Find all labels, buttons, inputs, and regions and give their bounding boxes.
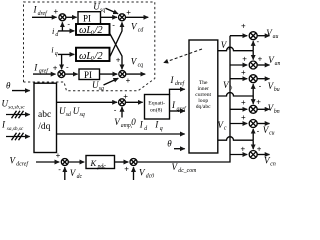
summing junction sum3 (q-axis error) [58, 71, 65, 78]
svg-text:on(8): on(8) [150, 106, 162, 113]
wire Equation8 to Iqref [170, 110, 185, 112]
node Va [221, 40, 230, 52]
svg-text:+: + [241, 22, 246, 31]
wire theta to abcdq [12, 90, 30, 92]
summing junction sum7 (dc offset) [130, 159, 137, 166]
svg-text:-: - [114, 106, 117, 115]
wire theta to inner loop [174, 148, 185, 150]
wire Va tie up into sumA1 [252, 41, 254, 51]
node Usabc [2, 98, 26, 110]
wire Idref to sum1 [32, 16, 57, 18]
svg-text:cq: cq [138, 63, 144, 69]
svg-text:d: d [144, 126, 147, 132]
svg-text:abc: abc [38, 110, 51, 120]
wire riser branch to sumB1 [230, 78, 247, 80]
summing junction sumB2 (Vbn) [249, 105, 257, 113]
wire riser branch to sumA1 [230, 35, 247, 37]
summing junction sumB1 (Vbu) [249, 75, 257, 83]
wire Kpdc to sum7 [115, 161, 129, 163]
node Id [139, 120, 148, 132]
svg-text:θ: θ [6, 80, 11, 90]
svg-text:+: + [53, 63, 58, 72]
node id [52, 26, 58, 38]
svg-text:-: - [257, 37, 260, 46]
block wL2 (omega L0/2 q-axis) [76, 48, 110, 63]
summing junction sum4 (Vcq) [119, 71, 126, 78]
svg-text:Equati-: Equati- [148, 100, 165, 106]
svg-text:a: a [227, 46, 230, 52]
svg-text:+: + [257, 144, 262, 153]
svg-text:PI: PI [84, 70, 92, 80]
block abc/dq transform [34, 83, 57, 152]
svg-text:+: + [126, 76, 131, 85]
wire riser branch to sumC2 [230, 154, 247, 156]
svg-text:+: + [241, 144, 246, 153]
wire sum6 to Kpdc [68, 161, 84, 163]
svg-text:+: + [258, 54, 263, 63]
svg-text:-: - [67, 20, 70, 29]
node Idref [33, 5, 49, 17]
svg-text:/dq: /dq [38, 122, 50, 132]
svg-text:sq: sq [99, 86, 104, 92]
node Usq bottom [92, 80, 104, 92]
svg-text:+: + [242, 54, 247, 63]
node Vdc0 [139, 167, 154, 179]
dashed box (decoupled current controller) [24, 2, 155, 91]
block inner current loop [189, 40, 218, 153]
svg-text:0: 0 [131, 117, 136, 127]
wire Equation8 to Idref (up and right) [170, 89, 185, 94]
svg-text:qref: qref [177, 105, 188, 112]
svg-text:dref: dref [38, 10, 49, 17]
wire Vc from inner loop (with hop) [218, 137, 253, 140]
wire sumA1 output [257, 35, 269, 37]
svg-text:dc: dc [77, 174, 83, 180]
wire sum2 output Vcd [126, 16, 149, 18]
dashed arrow inner loop to controller [164, 49, 202, 63]
wire Iqref to sum3 [33, 73, 56, 75]
wire Isabc bus to abcdq [6, 133, 30, 141]
svg-text:dref: dref [175, 80, 186, 87]
node iq [51, 45, 57, 58]
svg-text:+: + [54, 7, 59, 16]
block PI1 [78, 12, 101, 24]
svg-text:pdc: pdc [97, 164, 107, 170]
summing junction sumC1 (Vcu) [249, 120, 257, 128]
svg-text:/2: /2 [94, 25, 104, 36]
svg-text:-: - [257, 127, 260, 136]
svg-text:+: + [256, 97, 261, 106]
node Vcq [131, 57, 143, 69]
node Vcn [264, 155, 276, 167]
node Idref mid [170, 75, 186, 87]
svg-text:+: + [124, 165, 129, 174]
svg-text:au: au [273, 34, 279, 40]
node Usq top [93, 2, 105, 14]
wire id up into sum1 [61, 22, 63, 31]
wire Vb tie up into sumB1 [252, 84, 254, 96]
svg-text:q: q [55, 51, 58, 57]
svg-text:bn: bn [274, 109, 280, 115]
svg-text:0: 0 [91, 56, 94, 62]
svg-text:sd: sd [66, 112, 71, 118]
wire sumC2 output [257, 154, 269, 156]
svg-text:θ: θ [167, 138, 172, 148]
wire Vdccom to riser [137, 36, 230, 162]
svg-text:0: 0 [91, 31, 94, 37]
svg-text:PI: PI [83, 13, 91, 23]
block Equation8 [145, 95, 170, 120]
svg-text:sa,sb,sc: sa,sb,sc [7, 126, 24, 132]
wire iq to wL2 [58, 53, 74, 55]
node Vau [266, 28, 278, 40]
summing junction sum6 (dc voltage error) [61, 159, 68, 166]
node Iqref [33, 62, 49, 74]
summing junction sumC2 (Vcn) [249, 151, 257, 159]
block Kpdc [86, 156, 115, 171]
svg-text:+: + [56, 151, 61, 160]
wire sumB2 output [257, 108, 269, 110]
svg-text:dc_com: dc_com [178, 168, 196, 174]
wire iq down into sum3 [61, 54, 63, 69]
node Vdc [70, 168, 83, 180]
svg-text:+: + [126, 8, 131, 17]
svg-text:q: q [160, 126, 163, 132]
svg-text:b: b [229, 86, 232, 92]
svg-text:an: an [275, 61, 280, 67]
wire Vb tie down into sumB2 [252, 96, 254, 104]
node Vc [218, 120, 227, 132]
wire PI1 to sum2 [101, 16, 118, 18]
svg-text:-: - [66, 63, 69, 72]
svg-text:cu: cu [269, 131, 275, 137]
node Vbu [268, 81, 280, 93]
bottom row: node Vdcref [10, 155, 30, 167]
wire sum1 to PI1 [66, 16, 77, 18]
svg-text:-: - [112, 20, 115, 29]
wire Va from inner loop (with hop) [218, 47, 253, 51]
summing junction sumA1 (Vau) [249, 32, 257, 40]
svg-text:sa,sb,sc: sa,sb,sc [8, 105, 25, 111]
wire sumA2 output [257, 64, 269, 66]
svg-text:bu: bu [274, 87, 280, 93]
wire Usabc bus to abcdq [6, 111, 30, 119]
node Usd Usq [59, 106, 85, 118]
node Vamp0 [114, 117, 136, 129]
svg-text:-: - [58, 165, 61, 174]
wire Vdcref to sum6 [36, 161, 59, 163]
cross coupling wire wL2 to sum2 (X diagonal B) [110, 22, 123, 57]
wire riser branch to sumB2 [230, 108, 247, 110]
wire sum4 output Vcq [126, 73, 145, 75]
svg-text:dc0: dc0 [146, 174, 154, 180]
block PI2 [79, 69, 100, 80]
svg-text:dq/abc: dq/abc [196, 104, 211, 110]
summing junction sum1 (d-axis error) [59, 14, 66, 21]
svg-text:qref: qref [39, 67, 50, 74]
block wL1 (omega L0/2 d-axis) [76, 24, 110, 37]
svg-text:-: - [259, 81, 262, 90]
wire sumB1 output [257, 78, 269, 80]
wire Va tie down into sumA2 [252, 51, 254, 60]
svg-text:dcref: dcref [16, 161, 29, 168]
node Vbn [268, 103, 280, 115]
wire Id Iq to inner loop [57, 133, 185, 135]
summing junction sumA2 (Van) [249, 61, 257, 69]
wire sum3 to PI2 [65, 73, 78, 75]
svg-text:c: c [224, 126, 227, 132]
node Van [268, 55, 280, 67]
wire Vdc0 up into sum7 [133, 167, 135, 180]
node Vcd [131, 22, 143, 34]
node Iq [154, 120, 163, 132]
svg-text:sq: sq [100, 8, 105, 14]
cross coupling wire wL1 to sum4 (X diagonal A) [110, 33, 123, 69]
svg-text:+: + [241, 113, 246, 122]
wire Usq bottom to sum4 (diagonal) [104, 78, 119, 85]
node Iqref mid [171, 100, 187, 112]
svg-text:+: + [116, 55, 121, 64]
svg-text:cn: cn [270, 161, 276, 167]
wire sumC1 output [257, 123, 269, 125]
wire PI2 to sum4 [100, 73, 118, 75]
summing junction sum2 (Vcd) [119, 14, 126, 21]
svg-text:sq: sq [80, 112, 85, 118]
node Isabc [1, 120, 24, 132]
svg-text:+: + [241, 68, 246, 77]
wire Vamp0 up into sum5 [121, 107, 123, 118]
wire riser branch to sumC1 [230, 123, 247, 125]
wire riser branch to sumA2 [230, 64, 247, 66]
svg-text:/2: /2 [94, 51, 104, 62]
wire Vc tie up into sumC1 [252, 129, 254, 140]
node Vcu [263, 125, 275, 137]
svg-text:cd: cd [138, 28, 144, 34]
wire sum5 to Equation8 [126, 101, 143, 103]
summing junction sum5 (voltage amplitude) [119, 99, 126, 106]
wire Usd Usq to sum5 [57, 101, 118, 103]
svg-text:d: d [55, 32, 58, 38]
node Vb [223, 80, 232, 92]
wire Vdc up into sum6 [64, 167, 66, 180]
wire id to wL1 [58, 30, 74, 32]
svg-text:+: + [241, 98, 246, 107]
wire Usq to sum2 (diagonal) [106, 8, 119, 14]
wire Vc tie down into sumC2 [252, 140, 254, 149]
wire Vb from inner loop (with hop) [218, 93, 253, 96]
node Vdccom [172, 162, 197, 174]
